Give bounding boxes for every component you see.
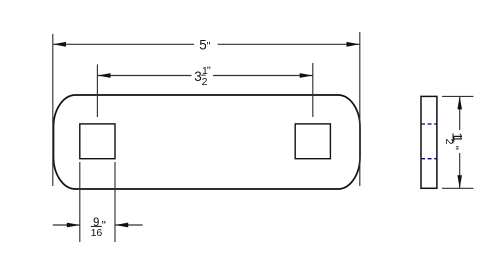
label 1 1/2 in (rotated) bbox=[443, 132, 465, 150]
extension line 5in right bbox=[359, 32, 361, 186]
leader 9/16 left bbox=[53, 224, 80, 226]
label 3 1/2 in bbox=[194, 65, 211, 88]
svg-text:": " bbox=[207, 41, 211, 53]
arrow 9/16 right bbox=[115, 223, 128, 228]
arrow 9/16 left bbox=[67, 223, 80, 228]
label 9/16 in bbox=[91, 217, 106, 239]
dimension line 3.5in bbox=[98, 75, 192, 77]
side dim bottom bar bbox=[442, 187, 474, 189]
square hole right bbox=[295, 124, 330, 159]
leader 9/16 right bbox=[115, 224, 143, 226]
svg-text:": " bbox=[207, 65, 211, 77]
arrow side down bbox=[457, 175, 462, 188]
hidden line (hole top) bbox=[421, 123, 437, 125]
svg-text:": " bbox=[447, 146, 461, 150]
svg-text:2: 2 bbox=[202, 76, 208, 88]
arrow 3.5in right bbox=[300, 73, 313, 78]
svg-text:": " bbox=[102, 219, 106, 233]
side dim top bar bbox=[442, 95, 474, 97]
extension line 3.5in right (hole center) bbox=[312, 63, 314, 117]
side view plate bbox=[421, 96, 437, 188]
arrow side up bbox=[457, 96, 462, 109]
svg-text:2: 2 bbox=[443, 139, 455, 145]
dimension line 5in bbox=[53, 43, 194, 45]
square hole left bbox=[80, 124, 115, 159]
arrow 5in left bbox=[53, 42, 66, 47]
hidden line (hole bottom) bbox=[421, 158, 437, 160]
extension line 5in left bbox=[52, 34, 54, 186]
plate outline (front view) bbox=[54, 95, 361, 189]
extension line 9/16 left (hole edge) bbox=[79, 162, 81, 242]
extension line 3.5in left (hole center) bbox=[96, 64, 98, 117]
svg-text:3: 3 bbox=[194, 69, 202, 84]
arrow 3.5in left bbox=[98, 73, 111, 78]
extension line 9/16 right (hole edge) bbox=[114, 162, 116, 242]
arrow 5in right bbox=[347, 42, 360, 47]
side dimension line vertical bbox=[459, 96, 461, 130]
